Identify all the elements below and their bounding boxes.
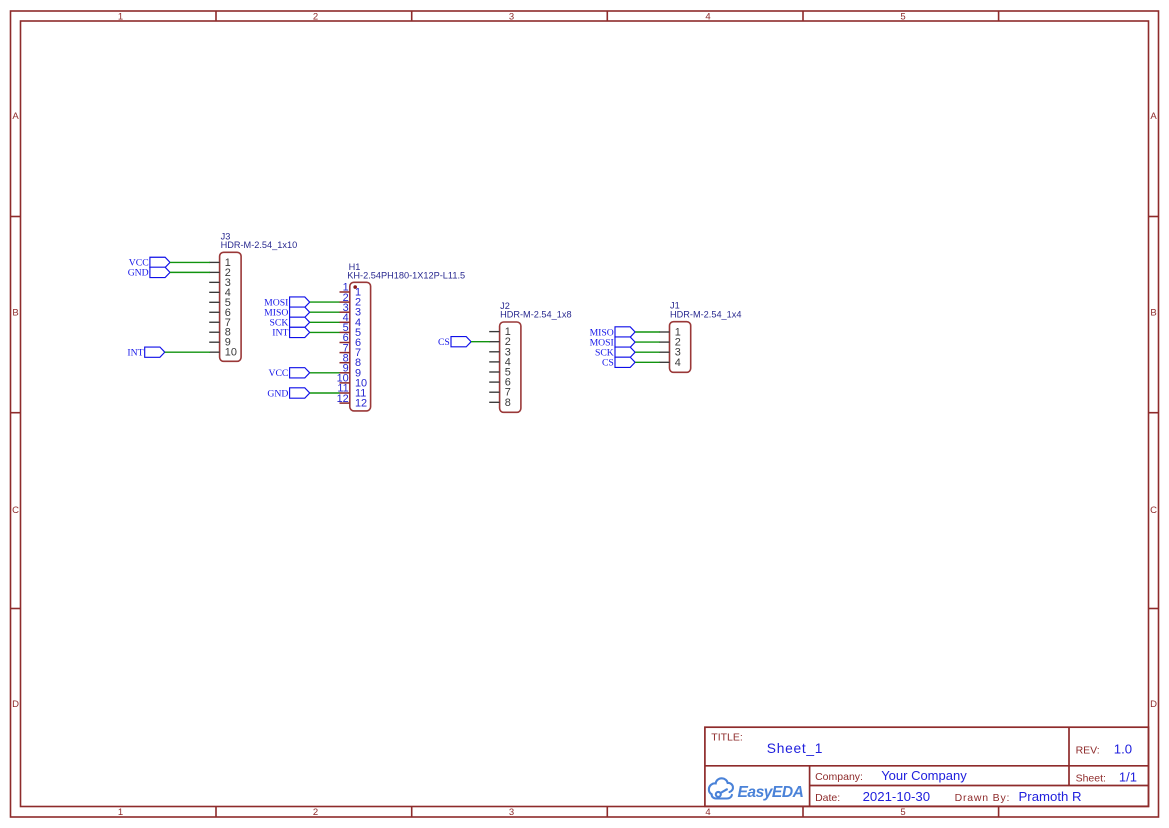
- wire CS to J2 pin 2: [471, 341, 490, 343]
- net flag INT (J3 pin 10): [127, 347, 164, 358]
- svg-text:HDR-M-2.54_1x8: HDR-M-2.54_1x8: [500, 310, 571, 320]
- connector J1 labels: [670, 301, 741, 320]
- connector H1 pin-1 dot: [353, 285, 357, 289]
- connector H1 outside pin numbers: [337, 282, 349, 405]
- frame row letters right: [1150, 111, 1157, 710]
- connector J2 labels: [500, 301, 571, 320]
- svg-text:1.0: 1.0: [1114, 741, 1132, 756]
- svg-text:4: 4: [705, 12, 710, 23]
- net flag CS (J2 pin 2): [438, 337, 471, 348]
- connector J3 body: [220, 252, 242, 361]
- svg-text:1: 1: [118, 807, 123, 818]
- wire MISO to J1 pin 1: [635, 331, 660, 333]
- wire CS to J1 pin 4: [635, 361, 660, 363]
- svg-text:B: B: [1150, 307, 1156, 318]
- net flag MOSI (H1 pin 2): [264, 297, 310, 308]
- frame column numbers bottom: [118, 807, 906, 818]
- wire SCK to H1 pin 4: [310, 321, 340, 323]
- svg-text:4: 4: [705, 807, 710, 818]
- svg-text:1: 1: [118, 12, 123, 23]
- svg-text:4: 4: [675, 357, 681, 369]
- connector J1 body: [670, 322, 691, 373]
- connector H1 pins 1-12: [340, 292, 350, 403]
- svg-text:2: 2: [313, 12, 318, 23]
- net flag SCK (J1 pin 3): [595, 347, 635, 358]
- wire SCK to J1 pin 3: [635, 351, 660, 353]
- frame column numbers top: [118, 12, 906, 23]
- connector J3 pin numbers 1-10: [225, 257, 237, 359]
- wire MISO to H1 pin 3: [310, 311, 340, 313]
- wire INT to J3 pin 10: [165, 351, 210, 353]
- wire MOSI to J1 pin 2: [635, 341, 660, 343]
- connector J3 pins 1-10: [209, 262, 219, 352]
- net flag MISO (J1 pin 1): [590, 327, 636, 338]
- svg-text:HDR-M-2.54_1x4: HDR-M-2.54_1x4: [670, 309, 741, 319]
- svg-text:C: C: [12, 505, 19, 516]
- svg-text:B: B: [12, 307, 18, 318]
- svg-text:D: D: [12, 699, 19, 710]
- svg-text:CS: CS: [602, 358, 614, 369]
- svg-text:REV:: REV:: [1076, 744, 1100, 756]
- frame row letters left: [12, 111, 19, 710]
- svg-text:5: 5: [900, 12, 905, 23]
- svg-text:Company:: Company:: [815, 771, 863, 783]
- connector H1 labels: [347, 262, 465, 281]
- connector H1 inside pin numbers: [355, 287, 367, 410]
- svg-text:Pramoth R: Pramoth R: [1019, 789, 1082, 804]
- svg-text:INT: INT: [272, 328, 288, 339]
- svg-text:10: 10: [225, 347, 237, 359]
- net flag GND (J3 pin 2): [128, 267, 170, 278]
- svg-text:A: A: [12, 111, 19, 122]
- svg-text:Sheet:: Sheet:: [1076, 772, 1106, 784]
- net flag MOSI (J1 pin 2): [590, 337, 636, 348]
- net flag VCC (J3 pin 1): [129, 257, 170, 268]
- svg-text:CS: CS: [438, 337, 450, 348]
- svg-text:3: 3: [509, 807, 514, 818]
- svg-text:INT: INT: [127, 347, 143, 358]
- svg-text:VCC: VCC: [268, 368, 288, 379]
- net flag INT (H1 pin 5): [272, 327, 309, 338]
- net flag MISO (H1 pin 3): [264, 307, 310, 318]
- net flag SCK (H1 pin 4): [270, 317, 310, 328]
- svg-text:EasyEDA: EasyEDA: [738, 784, 804, 801]
- wire VCC to H1 pin 9: [310, 372, 340, 374]
- connector J3 labels: [221, 231, 298, 250]
- svg-text:5: 5: [900, 807, 905, 818]
- net flag CS (J1 pin 4): [602, 357, 635, 368]
- wire VCC to J3 pin 1: [170, 261, 210, 263]
- svg-text:A: A: [1150, 111, 1157, 122]
- svg-text:Sheet_1: Sheet_1: [767, 741, 823, 756]
- svg-text:Your Company: Your Company: [881, 768, 967, 783]
- connector J2 body: [500, 322, 521, 412]
- svg-text:8: 8: [505, 397, 511, 409]
- svg-text:3: 3: [509, 12, 514, 23]
- svg-text:GND: GND: [267, 388, 288, 399]
- svg-text:D: D: [1150, 699, 1157, 710]
- svg-text:2: 2: [313, 807, 318, 818]
- wire MOSI to H1 pin 2: [310, 301, 340, 303]
- svg-text:2021-10-30: 2021-10-30: [863, 789, 930, 804]
- svg-text:Drawn By:: Drawn By:: [955, 792, 1011, 804]
- EasyEDA logo cloud icon: [709, 778, 733, 798]
- net flag VCC (H1 pin 9): [268, 368, 309, 379]
- connector J2 pins 1-8: [489, 332, 499, 403]
- svg-text:KH-2.54PH180-1X12P-L11.5: KH-2.54PH180-1X12P-L11.5: [347, 270, 465, 280]
- wire GND to J3 pin 2: [170, 271, 210, 273]
- svg-text:HDR-M-2.54_1x10: HDR-M-2.54_1x10: [221, 240, 298, 250]
- svg-text:Date:: Date:: [815, 792, 840, 804]
- net flag GND (H1 pin 11): [267, 388, 309, 399]
- svg-text:TITLE:: TITLE:: [711, 731, 743, 743]
- connector H1 body: [350, 282, 371, 411]
- title block border lines: [705, 727, 1149, 806]
- wire GND to H1 pin 11: [310, 392, 340, 394]
- connector J1 pin numbers 1-4: [675, 327, 681, 369]
- connector J1 pins 1-4: [659, 332, 669, 362]
- svg-text:12: 12: [337, 393, 349, 405]
- wire INT to H1 pin 5: [310, 331, 340, 333]
- svg-text:12: 12: [355, 398, 367, 410]
- svg-text:C: C: [1150, 505, 1157, 516]
- svg-text:1/1: 1/1: [1119, 769, 1137, 784]
- connector J2 pin numbers 1-8: [505, 326, 511, 409]
- svg-text:GND: GND: [128, 268, 149, 279]
